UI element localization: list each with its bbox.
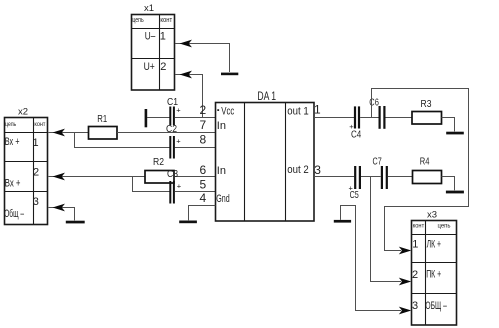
svg-text:C6: C6 <box>369 97 379 109</box>
capacitor C4 <box>349 106 361 140</box>
svg-text:Gnd: Gnd <box>216 193 229 205</box>
wire IC pin4 to ground <box>189 206 216 221</box>
svg-text:x3: x3 <box>427 210 437 221</box>
svg-text:U–: U– <box>145 30 156 42</box>
wire R1 to IC pin7 <box>117 132 216 134</box>
svg-text:C3: C3 <box>167 168 178 180</box>
svg-text:3: 3 <box>314 163 321 177</box>
svg-text:+: + <box>176 105 181 114</box>
wire C3 to IC pin5 <box>175 191 216 193</box>
svg-text:In: In <box>217 165 226 177</box>
wire X2 pin2 to R2 <box>49 173 146 181</box>
svg-text:6: 6 <box>200 163 207 177</box>
wire ground to C1 <box>147 117 170 119</box>
wire C7 to R4 <box>388 176 413 178</box>
svg-text:3: 3 <box>412 300 418 312</box>
svg-text:4: 4 <box>200 191 207 205</box>
arrow into X3 pin3 <box>399 307 412 315</box>
wire junction drop to C2 / pin8 <box>75 133 170 148</box>
svg-text:ПК +: ПК + <box>426 269 441 281</box>
wire R2 to IC pin6 <box>174 176 216 178</box>
svg-text:x1: x1 <box>144 3 154 14</box>
svg-text:цепь: цепь <box>438 223 452 230</box>
ground G4 (IC Gnd) <box>179 221 197 224</box>
svg-text:конт: конт <box>160 17 172 24</box>
capacitor C1 <box>167 96 181 125</box>
ground G2 (C1 left plate bar) <box>145 109 148 127</box>
IC pin numbers left <box>200 103 207 205</box>
svg-text:2: 2 <box>412 269 418 281</box>
svg-text:U+: U+ <box>144 61 155 73</box>
ground G3 (X2 Общ) <box>66 221 85 224</box>
resistor R4 <box>413 155 442 183</box>
connector X3 table <box>412 221 457 326</box>
svg-text:2: 2 <box>160 61 166 73</box>
svg-text:C7: C7 <box>373 156 382 168</box>
connector X2 table <box>4 118 47 225</box>
wire X2 pin3 to ground <box>49 204 75 221</box>
wire junction drop to C3 / pin5 <box>133 177 170 192</box>
svg-text:Вх +: Вх + <box>5 136 20 148</box>
wire X1 pin2 to IC pin2 riser <box>175 71 203 118</box>
svg-text:цепь: цепь <box>132 17 144 24</box>
ground G6 (R4) <box>446 191 464 194</box>
ground G7 (common) <box>334 220 351 223</box>
svg-text:In: In <box>217 120 226 132</box>
resistor R3 <box>412 98 442 124</box>
arrow into X3 pin1 <box>399 247 412 255</box>
svg-text:+: + <box>177 182 182 191</box>
svg-text:1: 1 <box>33 137 39 149</box>
wire R3 to ground <box>442 118 455 132</box>
svg-text:цепь: цепь <box>5 121 16 128</box>
wire C2 to IC pin8 <box>175 147 216 149</box>
ground G1 (X1 U-) <box>221 73 238 76</box>
wire C6 to R3 <box>386 117 413 119</box>
wire loop: C4/C6 node up over right down to X3 pin1 <box>372 89 469 251</box>
svg-text:x2: x2 <box>18 107 28 118</box>
svg-text:Вх +: Вх + <box>5 177 21 189</box>
capacitor C2 <box>166 123 181 159</box>
resistor R2 <box>145 156 174 183</box>
capacitor C7 <box>373 156 387 189</box>
svg-text:1: 1 <box>412 238 418 250</box>
svg-text:R1: R1 <box>97 113 107 125</box>
IC op-amp DA1 <box>216 89 315 221</box>
wire C1 to IC pin2 <box>175 117 216 119</box>
wire C4 to C6 node <box>360 117 378 119</box>
svg-text:1: 1 <box>160 30 166 42</box>
svg-text:7: 7 <box>200 118 207 132</box>
svg-text:конт: конт <box>34 121 45 128</box>
svg-text:2: 2 <box>33 167 39 179</box>
capacitor C5 <box>349 166 360 201</box>
wire X1 pin1 to ground <box>175 40 230 72</box>
wire IC pin3 to C5 <box>314 176 354 178</box>
svg-text:Общ –: Общ – <box>4 208 24 220</box>
svg-text:Vcc: Vcc <box>221 106 234 118</box>
svg-text:конт: конт <box>413 223 425 230</box>
wire ground to X3 pin3 <box>341 206 402 311</box>
svg-text:3: 3 <box>33 196 39 208</box>
arrow into X3 pin2 <box>399 278 412 286</box>
svg-text:R3: R3 <box>421 98 432 110</box>
connector X1 table <box>132 15 175 91</box>
svg-text:ОБЩ –: ОБЩ – <box>425 300 447 312</box>
capacitor C6 <box>369 97 384 129</box>
svg-text:C2: C2 <box>166 123 177 135</box>
svg-text:C5: C5 <box>350 189 359 201</box>
wire C5 to C7 node <box>361 176 381 178</box>
wire R4 to ground <box>442 177 455 191</box>
wire C5/C7 node down to X3 pin2 <box>371 177 402 282</box>
svg-text:C4: C4 <box>351 129 361 141</box>
svg-text:+: + <box>176 136 181 145</box>
svg-text:R2: R2 <box>153 156 164 168</box>
svg-text:5: 5 <box>200 177 207 191</box>
IC pin numbers right <box>314 102 321 177</box>
ground G5 (R3) <box>446 132 464 135</box>
connector X1 label <box>144 3 154 14</box>
svg-text:ЛК +: ЛК + <box>427 238 441 250</box>
capacitor C3 <box>167 168 182 204</box>
svg-text:out 2: out 2 <box>287 164 308 176</box>
svg-text:1: 1 <box>314 102 321 116</box>
svg-text:out 1: out 1 <box>287 106 308 118</box>
svg-text:DA 1: DA 1 <box>257 89 276 103</box>
svg-text:2: 2 <box>200 103 207 117</box>
svg-text:8: 8 <box>200 133 207 147</box>
wire X2 pin1 to R1 <box>49 129 89 137</box>
connector X2 label <box>18 107 28 118</box>
svg-text:R4: R4 <box>420 155 430 167</box>
wire IC pin1 to C4 <box>314 117 354 119</box>
resistor R1 <box>89 113 118 139</box>
connector X3 label <box>427 210 437 221</box>
